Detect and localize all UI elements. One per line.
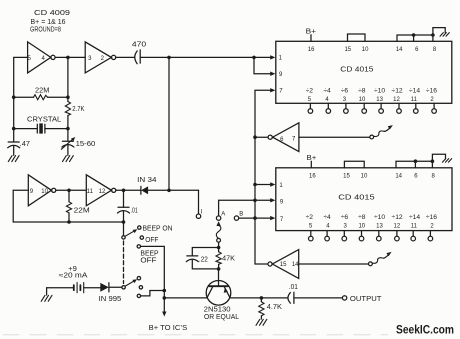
probe lead A squiggle: [216, 225, 221, 238]
diode 1N34: [140, 186, 142, 194]
B+ rail arrow down: [162, 312, 166, 317]
svg-text:47K: 47K: [222, 256, 235, 263]
probe plug (IC1): [370, 135, 374, 139]
node 22M left: [12, 95, 16, 99]
svg-text:GROUND=8: GROUND=8: [30, 26, 61, 33]
svg-text:4.7K: 4.7K: [267, 304, 282, 311]
ground (U2): [440, 33, 449, 37]
node crystal left: [12, 127, 16, 131]
svg-text:16: 16: [308, 47, 315, 53]
terminal A: [216, 216, 220, 220]
svg-text:10: 10: [358, 224, 365, 230]
svg-text:OR EQUAL: OR EQUAL: [204, 314, 239, 321]
U3 top pin labels: [309, 173, 435, 179]
svg-text:.01: .01: [131, 207, 138, 214]
wire A riser to bus: [219, 200, 254, 216]
svg-text:÷8: ÷8: [358, 214, 366, 221]
U2 top pin labels: [308, 47, 437, 53]
svg-text:÷10: ÷10: [374, 214, 385, 221]
svg-text:15: 15: [344, 47, 351, 53]
scan streak bottom: [3, 334, 388, 336]
svg-text:14: 14: [396, 47, 403, 53]
svg-text:13: 13: [376, 224, 383, 230]
svg-text:11: 11: [87, 189, 94, 195]
S1b contact top: [137, 277, 140, 280]
svg-text:IN 995: IN 995: [99, 296, 122, 303]
resistor 22M (vertical): [68, 190, 70, 202]
transistor Q1 2N5130: [206, 281, 231, 306]
svg-text:÷16: ÷16: [426, 214, 437, 221]
U2 jumper 15-10: [348, 34, 366, 41]
svg-text:15-60: 15-60: [76, 141, 96, 148]
wire U1a input feedback left: [14, 57, 28, 97]
wire U1c input feedback: [13, 190, 28, 222]
svg-text:14: 14: [395, 173, 402, 179]
wire node down to 22M: [67, 57, 69, 97]
svg-text:12: 12: [393, 97, 400, 103]
ground (U3): [442, 159, 451, 163]
svg-text:OFF: OFF: [145, 237, 158, 244]
switch S1a pole wire: [123, 222, 125, 236]
U3 jumper 15-10: [344, 161, 364, 168]
svg-text:15: 15: [280, 262, 287, 268]
resistor 47K: [218, 248, 220, 252]
svg-text:CD 4009: CD 4009: [34, 8, 70, 17]
switch S1b pole: [122, 286, 125, 289]
ground (.47): [8, 156, 19, 162]
inverter U1c (pins 9,10): [28, 175, 51, 206]
wire long vertical x169: [168, 57, 170, 190]
capacitor .47: [13, 129, 15, 142]
svg-text:BEEP ON: BEEP ON: [143, 225, 173, 232]
terminal OUTPUT: [342, 296, 346, 300]
probe plug (IC2): [369, 262, 373, 266]
U3 divide labels: [306, 214, 438, 221]
svg-text:2N5130: 2N5130: [204, 307, 231, 314]
U2 divide labels: [306, 87, 438, 94]
wire B to IC2 pin7: [239, 217, 272, 219]
svg-text:11: 11: [411, 97, 418, 103]
svg-text:÷12: ÷12: [392, 87, 403, 94]
svg-text:10: 10: [41, 189, 48, 195]
svg-text:÷16: ÷16: [426, 87, 437, 94]
S1b contact mid: [139, 286, 142, 289]
U2 B+ lead pin16: [306, 28, 316, 35]
U3 ground lead: [432, 154, 445, 161]
U2 ground lead: [433, 28, 445, 35]
inverter U1e (pins 6,7): [273, 123, 299, 152]
wire Q1 left leg to rail: [164, 297, 207, 299]
wire Q1 right leg to output: [230, 297, 287, 299]
node bus-inverter6: [253, 135, 257, 139]
wire crystal row: [13, 97, 15, 128]
svg-text:.47: .47: [20, 141, 30, 148]
svg-text:CD 4015: CD 4015: [338, 195, 374, 202]
node 1N34 right: [167, 189, 171, 193]
svg-text:10: 10: [362, 47, 369, 53]
wire U1c out to U1d in: [56, 189, 87, 191]
crystal Y1: [27, 116, 61, 123]
inverter U1a (pins 5,4): [28, 42, 51, 73]
node between U1c,U1d: [67, 189, 71, 193]
switch S1a arm: [125, 231, 135, 237]
capacitor 470: [116, 56, 135, 58]
title text CD 4009: [30, 8, 70, 33]
svg-text:12: 12: [99, 189, 106, 195]
node 4.7K top: [260, 296, 264, 300]
U3 B+ lead pin16: [307, 155, 317, 162]
svg-text:15: 15: [343, 173, 350, 179]
ground (15-60): [63, 156, 74, 162]
svg-text:10: 10: [359, 97, 366, 103]
terminal B: [234, 216, 238, 220]
contact OFF: [140, 236, 143, 239]
U3 left pin labels: [279, 183, 284, 223]
IC U3 CD4015 (bottom): [276, 168, 452, 231]
svg-text:BEEP: BEEP: [140, 250, 159, 257]
probe squiggle (IC1): [374, 128, 390, 137]
svg-text:÷12: ÷12: [392, 214, 403, 221]
contact BEEP OFF: [137, 245, 140, 248]
S1b contact bottom: [137, 294, 140, 297]
svg-text:B+ = 1& 16: B+ = 1& 16: [31, 19, 66, 26]
node Q1 base: [217, 267, 221, 271]
wire BEEP OFF contact to B+ rail: [141, 246, 165, 312]
svg-text:B+ TO IC’S: B+ TO IC’S: [149, 325, 188, 332]
svg-text:A: A: [221, 212, 225, 218]
inverter U1f (pins 15,14): [272, 250, 298, 279]
ground (4.7K): [256, 319, 267, 325]
inverter U1b (pins 3,2): [85, 42, 111, 73]
node at x169: [167, 56, 171, 60]
capacitor .01 (output): [288, 293, 290, 304]
svg-text:14: 14: [292, 262, 299, 268]
svg-text:470: 470: [132, 42, 146, 49]
svg-text:SeekIC.com: SeekIC.com: [396, 325, 454, 337]
node .01 top: [122, 189, 126, 193]
gang dashed link: [123, 241, 125, 284]
svg-text:÷2: ÷2: [306, 214, 314, 221]
wire U1a output to U1b input: [55, 56, 85, 58]
probe lead A plug: [217, 238, 221, 242]
switch S1b arm: [125, 281, 135, 287]
svg-text:12: 12: [394, 224, 401, 230]
node 22M right: [66, 95, 70, 99]
U2 jumper 14-6-8: [397, 35, 433, 41]
wire U1d output row: [116, 189, 141, 191]
wire bus to U1e output: [255, 136, 268, 138]
svg-text:22M: 22M: [35, 87, 50, 94]
diode 1N995: [100, 283, 108, 292]
capacitor .22 loop: [192, 248, 218, 256]
node 47K top: [217, 246, 221, 250]
U2 output terminals: [308, 103, 436, 113]
inverter U1d (pins 11,12): [86, 175, 111, 206]
U2 left pin labels: [279, 56, 284, 95]
resistor 4.7K: [260, 298, 262, 302]
U2 bottom pin numbers: [308, 97, 435, 103]
node crystal right: [66, 127, 70, 131]
U3 jumper 14-6-8: [396, 161, 432, 168]
trimmer capacitor 15-60: [67, 129, 69, 142]
svg-text:CRYSTAL: CRYSTAL: [27, 116, 61, 123]
ground (battery): [41, 295, 52, 301]
svg-text:.22: .22: [199, 256, 208, 263]
svg-text:÷2: ÷2: [306, 87, 314, 94]
node bus-B: [253, 216, 257, 220]
svg-text:÷8: ÷8: [358, 87, 366, 94]
svg-text:÷4: ÷4: [323, 87, 331, 94]
IC U2 CD4015 (top): [276, 41, 452, 103]
svg-text:÷4: ÷4: [323, 214, 331, 221]
svg-text:2.7K: 2.7K: [72, 106, 84, 113]
svg-text:IN 34: IN 34: [137, 177, 156, 184]
battery B1 +9: [47, 288, 74, 295]
svg-text:10: 10: [361, 173, 368, 179]
svg-text:÷14: ÷14: [409, 87, 420, 94]
wire U1e input: [299, 136, 370, 138]
svg-text:CD 4015: CD 4015: [340, 67, 373, 74]
node rail-transistor: [163, 296, 167, 300]
wire 470 to IC1 pin 1: [140, 56, 271, 58]
U3 output terminals: [309, 231, 433, 241]
svg-text:÷14: ÷14: [409, 214, 420, 221]
svg-text:13: 13: [376, 97, 383, 103]
U3 bottom pin numbers: [309, 224, 435, 230]
contact BEEP ON: [138, 226, 141, 229]
svg-text:÷6: ÷6: [341, 214, 349, 221]
resistor 2.7K (vertical): [67, 97, 69, 101]
bus vertical x255: [255, 90, 271, 264]
svg-text:÷10: ÷10: [374, 87, 385, 94]
terminal I: [198, 190, 200, 214]
capacitor .01 (oscillator): [123, 190, 125, 207]
svg-text:OUTPUT: OUTPUT: [350, 296, 382, 303]
svg-text:OFF: OFF: [140, 258, 156, 265]
probe squiggle (IC2): [372, 255, 388, 264]
svg-text:.01: .01: [289, 284, 298, 291]
node at x254: [252, 56, 256, 60]
wire U1f input: [299, 263, 369, 265]
svg-text:22M: 22M: [74, 207, 90, 214]
resistor 22M (horizontal): [14, 96, 34, 98]
svg-text:11: 11: [411, 224, 418, 230]
node junction between U1a,U1b: [66, 56, 70, 60]
svg-text:16: 16: [309, 173, 316, 179]
svg-text:≈20 mA: ≈20 mA: [59, 272, 88, 279]
node rail-switch: [163, 289, 167, 293]
wire S1b bottom contact to rail: [141, 291, 165, 296]
node bus-IC2pin9: [253, 199, 257, 203]
svg-text:÷6: ÷6: [341, 87, 349, 94]
wire branch to IC1 pin 9: [254, 57, 271, 73]
svg-text:B: B: [239, 212, 243, 218]
node bus-IC2pin1: [253, 183, 257, 187]
wire bottom feedback y222: [13, 221, 123, 223]
probe lead A: arrow: [216, 221, 220, 226]
